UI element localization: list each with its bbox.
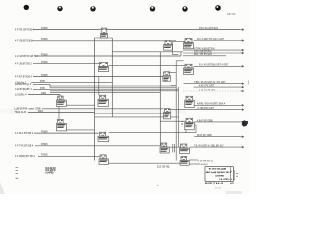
- thumb index mark right edge: [242, 120, 248, 126]
- wire row R2 net 4FGB: [15, 39, 165, 42]
- title block table: [205, 167, 233, 182]
- wire bus row B3: [50, 86, 178, 89]
- wire row R4 net 4FJB: [15, 62, 99, 65]
- svg-text:44 9BRB: 44 9BRB: [215, 174, 224, 177]
- output row y109.7: [171, 108, 244, 111]
- op IC U17: [160, 143, 169, 153]
- op IC U12: [57, 119, 67, 131]
- bus V6 x176.3: [175, 61, 177, 161]
- op IC U2: [164, 41, 173, 51]
- op IC U18: [180, 144, 190, 153]
- op IC U10: [57, 96, 67, 106]
- svg-text:P.U. 49 GRT(W) GRT 4 GRT: P.U. 49 GRT(W) GRT 4 GRT: [199, 65, 229, 67]
- svg-text:PXB: PXB: [40, 81, 45, 83]
- svg-text:PXB/9: PXB/9: [41, 54, 48, 56]
- stray speck: [157, 184, 158, 187]
- wire row R6 net LL8F2F: [14, 108, 163, 111]
- output row y164: [189, 164, 208, 166]
- wire U6 to V6: [170, 72, 176, 74]
- wire U5 out to U4: [109, 64, 185, 66]
- op IC U9: [185, 96, 194, 107]
- op IC U4: [184, 64, 194, 74]
- wire row R7 net T9A4: [14, 111, 94, 114]
- output row y87.1: [194, 86, 244, 89]
- scan shading bottom-center smudge: [226, 191, 242, 194]
- bus V2 x98.8 drop to U8: [98, 77, 100, 96]
- wire row R11 net 4F9BT: [15, 155, 100, 158]
- wire V4 to U14 y121.2: [160, 120, 186, 122]
- svg-text:4B PBT. (T B.A. 43: 4B PBT. (T B.A. 43: [205, 182, 224, 185]
- svg-text:4B 444: 4B 444: [215, 187, 222, 189]
- svg-text:PXB/9: PXB/9: [41, 39, 48, 41]
- note text mid bottom: [157, 166, 170, 168]
- bracket right of title block: [234, 171, 235, 180]
- op IC U5: [98, 62, 108, 71]
- punch hole 4: [150, 6, 155, 11]
- right margin tick: [247, 81, 249, 85]
- wire bus row B5: [50, 91, 160, 93]
- op IC U16: [99, 155, 108, 165]
- svg-text:/ 1.9B (RR) GRT: / 1.9B (RR) GRT: [197, 108, 215, 110]
- svg-text:48.1 F.GRT BT-130.1 GRT: 48.1 F.GRT BT-130.1 GRT: [197, 39, 225, 41]
- svg-text:B4/9: B4/9: [38, 111, 43, 113]
- wire row R1 net 4FTB: [15, 28, 241, 31]
- notes block left bottom: [46, 167, 56, 175]
- wire U17-U18: [169, 146, 180, 148]
- wire row R10 net 4FT4X: [15, 144, 160, 147]
- svg-text:4(44)BT: 4(44)BT: [200, 164, 208, 166]
- wire jumper y51.2: [112, 51, 183, 53]
- svg-text:4 F 9(RR) BT 4B 4: 4 F 9(RR) BT 4B 4: [15, 155, 35, 158]
- output row y66.3: [194, 65, 244, 68]
- wire row R9 net 4F9LX: [15, 132, 99, 135]
- output row y29.6 arrow: [241, 29, 244, 31]
- output row y136.7: [194, 135, 244, 138]
- margin tick stack: [16, 167, 19, 179]
- punch hole 2: [57, 6, 62, 11]
- op IC U3: [184, 39, 194, 49]
- op IC U1: [100, 28, 107, 38]
- scan shading bottom-left streak: [0, 182, 5, 194]
- svg-text:4B1 / VR BT GRT: 4B1 / VR BT GRT: [194, 54, 213, 56]
- wire U12 out: [66, 129, 94, 131]
- svg-text:T.9 / 44 GRT 4 / GBL (R) 4L7: T.9 / 44 GRT 4 / GBL (R) 4L7: [194, 146, 224, 148]
- wire U10 to U12 vertical: [58, 106, 60, 119]
- svg-text:E12 GB 4BL: E12 GB 4BL: [157, 166, 170, 168]
- svg-text:(4.4PB): (4.4PB): [46, 172, 54, 175]
- svg-text:131 BT(R)/BT 4: 131 BT(R)/BT 4: [15, 88, 32, 91]
- svg-text:4 F 9LX BT/GB 4: 4 F 9LX BT/GB 4: [15, 132, 34, 135]
- op IC U6: [163, 72, 171, 81]
- svg-text:PXB/9: PXB/9: [41, 132, 48, 134]
- wire U16 out: [108, 162, 181, 164]
- wire bus row B4: [15, 88, 178, 91]
- svg-text:PXB/9: PXB/9: [41, 75, 48, 77]
- svg-text:4(RR) / 9GA.R(GRT) 9BA.4: 4(RR) / 9GA.R(GRT) 9BA.4: [197, 103, 226, 106]
- punch hole 6: [215, 5, 221, 11]
- wire bus row B1: [15, 81, 112, 84]
- punch hole 5: [182, 6, 187, 11]
- svg-text:BT 4B3 GBL(4)4B: BT 4B3 GBL(4)4B: [209, 167, 227, 170]
- output row y105.3: [194, 103, 244, 107]
- svg-text:9L97 (R) GRB: 9L97 (R) GRB: [197, 135, 212, 137]
- output row y160: [189, 160, 214, 163]
- svg-text:4(R) / BR BT/PW: 4(R) / BR BT/PW: [194, 51, 212, 53]
- op IC U14: [185, 118, 196, 132]
- bus V5 bracket x172.6: [173, 41, 178, 55]
- svg-text:LL8F2F/PW ·www· GRB: LL8F2F/PW ·www· GRB: [14, 108, 40, 111]
- output row y53: [183, 51, 244, 53]
- bus V4 x160.3: [159, 52, 161, 146]
- wire mid jumper row y117: [95, 116, 179, 118]
- output row y147.1: [190, 146, 244, 149]
- svg-text:4 44 GBL/BT 44: 4 44 GBL/BT 44: [198, 161, 214, 163]
- bus V3 x111.8: [111, 38, 113, 117]
- output row y83.7: [171, 82, 244, 86]
- svg-text:T.A. 27B19: T.A. 27B19: [219, 178, 230, 181]
- punch hole 3: [90, 6, 95, 11]
- op IC U11: [164, 109, 171, 119]
- wire U10 out: [66, 104, 94, 106]
- wire row net 13E feeding U10: [15, 93, 60, 96]
- svg-text:13 E(R)x 4: 13 E(R)x 4: [15, 93, 27, 96]
- output row y50.1: [183, 49, 244, 51]
- wire U2-U3: [173, 41, 185, 43]
- svg-text:GB 101: GB 101: [227, 13, 236, 16]
- wire stub V6 top: [176, 60, 183, 62]
- op IC U8: [98, 95, 108, 106]
- bus V1 x96.4: [94, 38, 96, 161]
- pin numbers left of U14: [181, 120, 183, 123]
- svg-text:4 F T4X BT/GB 4: 4 F T4X BT/GB 4: [15, 145, 34, 148]
- svg-text:T9A4 4L-B: T9A4 4L-B: [14, 111, 26, 114]
- svg-text:PXB/9: PXB/9: [41, 62, 48, 64]
- output row y40.5: [194, 39, 244, 41]
- op IC U13: [98, 132, 109, 141]
- wire frame under U1: [95, 37, 113, 39]
- svg-text:4.45 / PX GRT: 4.45 / PX GRT: [199, 86, 214, 88]
- svg-text:4 F BT BT/GB 4: 4 F BT BT/GB 4: [15, 75, 33, 78]
- wire bus row B2: [15, 83, 176, 87]
- bus V7 x178.4: [177, 87, 179, 147]
- svg-text:4 F GB BT/GB 2: 4 F GB BT/GB 2: [15, 40, 33, 43]
- svg-text:4 F TB GRT/GB 4: 4 F TB GRT/GB 4: [15, 28, 35, 31]
- junction verticals between U17 and U18: [172, 144, 174, 152]
- wire U13 out to U14 loop: [109, 131, 186, 133]
- svg-text:T.BR / 45.45 GRT 44 / PX GRT: T.BR / 45.45 GRT 44 / PX GRT: [194, 82, 226, 84]
- punch hole 1: [24, 5, 29, 10]
- svg-text:P.TRX/ 4.BR BT.PW: P.TRX/ 4.BR BT.PW: [194, 49, 215, 51]
- svg-text:PXB/9: PXB/9: [41, 155, 48, 157]
- wire bus to U11 y113.6: [95, 113, 164, 115]
- svg-text:4 F JB BT/GB 2: 4 F JB BT/GB 2: [15, 62, 32, 65]
- scan light band across mid page: [0, 109, 186, 114]
- svg-text:PXB/9: PXB/9: [41, 144, 48, 146]
- output row y121.9: [194, 119, 244, 123]
- wire row R3 net 4CGB: [15, 52, 181, 58]
- output row y55.8: [183, 54, 226, 56]
- svg-text:PXB/9: PXB/9: [41, 28, 48, 30]
- svg-text:4.14 GT 9R GRT: 4.14 GT 9R GRT: [199, 89, 216, 91]
- svg-text:PXC/ 49 GRT BLN: PXC/ 49 GRT BLN: [199, 28, 218, 30]
- svg-text:12/9A9 BT/gr 4: 12/9A9 BT/gr 4: [15, 83, 32, 86]
- svg-text:PXB: PXB: [40, 88, 45, 90]
- output row y91 dashed: [183, 89, 244, 92]
- svg-text:4.9A/7 BT.GRB: 4.9A/7 BT.GRB: [197, 119, 213, 122]
- wire row R5 net 4FBT: [15, 75, 163, 78]
- op IC U19: [180, 156, 189, 165]
- svg-text:9/9B: 9/9B: [41, 93, 46, 95]
- svg-text:4B43 9x(44) 9(4)GB3L 9B3.4: 4B43 9x(44) 9(4)GB3L 9B3.4: [206, 171, 232, 174]
